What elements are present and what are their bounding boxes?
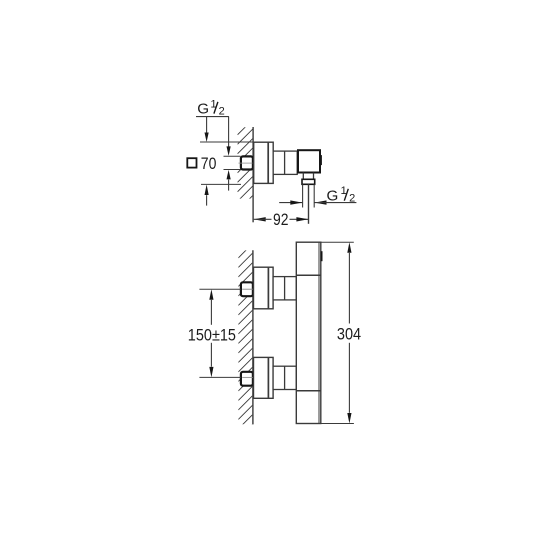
hose centerline — [308, 184, 310, 224]
svg-text:304: 304 — [337, 326, 361, 344]
extension line: escutcheon top edge — [200, 141, 253, 143]
square elbow head — [298, 150, 320, 172]
thermostat body — [296, 242, 321, 423]
upper in-wall union nut — [241, 282, 253, 296]
svg-text:G: G — [327, 187, 339, 204]
supply pipe channel through wall (white) — [224, 157, 241, 169]
dim G1/2 (right, outlet thread) — [279, 185, 356, 205]
lower in-wall union nut — [241, 372, 253, 386]
wall hatch (top view wall section) — [238, 110, 253, 211]
wall hatch (lower drawing) — [238, 234, 252, 438]
centerline through lower nut — [242, 376, 253, 378]
svg-text:2: 2 — [349, 193, 355, 205]
svg-text:70: 70 — [201, 155, 217, 173]
centerline through upper nut — [242, 288, 253, 290]
svg-text:G: G — [197, 101, 209, 118]
lower s-union escutcheon — [254, 357, 274, 398]
outlet neck below head — [303, 173, 313, 180]
pipe centerline through nut — [239, 162, 253, 164]
extension line: nut bottom edge — [224, 169, 241, 171]
upper inlet pipe — [273, 277, 296, 300]
leader underline of G1/2 label — [196, 116, 229, 118]
lower inlet pipe — [273, 366, 296, 389]
label square-70 — [187, 155, 216, 173]
wall line (top drawing) — [252, 127, 254, 222]
extension line: escutcheon bottom edge — [201, 183, 241, 185]
dim G1/2: lower arrow pointing up at nut bottom — [227, 170, 231, 191]
svg-text:2: 2 — [219, 106, 225, 118]
wall line (lower drawing) — [252, 250, 254, 424]
dim 70: lower arrow pointing up at escutcheon bottom — [205, 185, 209, 206]
svg-text:92: 92 — [273, 211, 289, 229]
elbow neck cylinders — [273, 151, 297, 174]
dim 304 (body height) — [321, 242, 361, 423]
outlet thread cylinder sides — [303, 184, 315, 207]
upper s-union escutcheon — [254, 267, 274, 309]
leader drop line with arrow to escutcheon top (left) — [205, 117, 209, 142]
dim 150±15 (inlet spacing) — [188, 289, 241, 377]
dim 92 (wall to outlet axis) — [254, 211, 309, 229]
wall escutcheon flange — [254, 142, 274, 183]
side detail on body top right — [321, 251, 323, 261]
extension line: nut top edge — [224, 155, 241, 157]
side detail on elbow head — [320, 155, 322, 165]
svg-text:150±15: 150±15 — [188, 327, 236, 345]
outlet nut — [302, 179, 315, 184]
label G1/2 (top left) — [197, 99, 224, 118]
leader drop line with arrow to union nut top (right) — [227, 117, 231, 156]
in-wall union nut (top drawing) — [241, 156, 253, 169]
